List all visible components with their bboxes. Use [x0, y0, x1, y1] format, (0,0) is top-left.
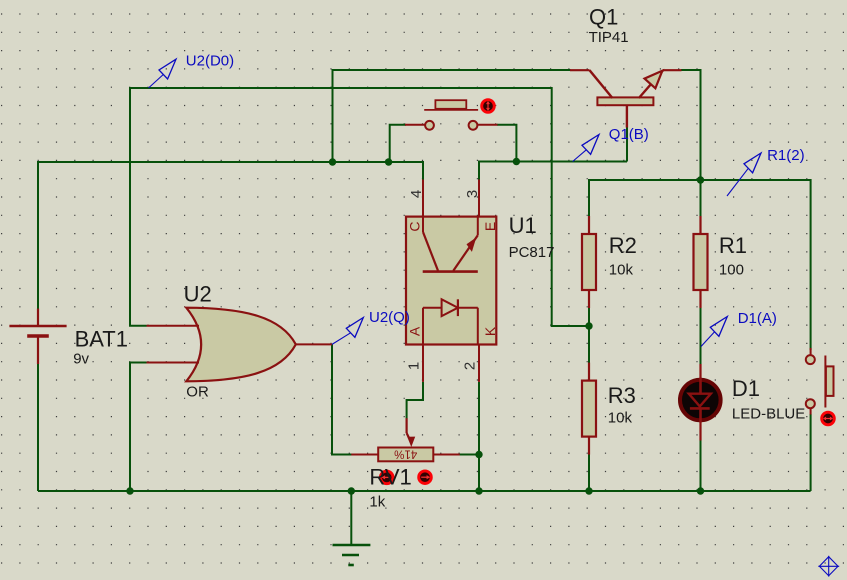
- svg-text:R2: R2: [609, 233, 637, 258]
- label R3: [608, 383, 636, 408]
- svg-text:D1: D1: [732, 376, 760, 401]
- wire button left contact drop: [390, 125, 406, 162]
- svg-text:1k: 1k: [369, 494, 385, 511]
- wire U1 pin1 to RV1 wiper: [407, 382, 423, 419]
- svg-text:Q1(B): Q1(B): [609, 126, 649, 143]
- pin name A: [407, 326, 423, 336]
- svg-text:U2(Q): U2(Q): [369, 309, 410, 326]
- wire BAT1- to ground rail: [37, 364, 39, 491]
- wire U1 pin3 to Q1 base y=161.5: [479, 162, 627, 180]
- value 9v: [73, 351, 89, 368]
- svg-text:4: 4: [408, 190, 425, 198]
- pin number 1: [406, 362, 423, 370]
- potentiometer RV1: [351, 418, 459, 461]
- svg-text:C: C: [407, 221, 423, 231]
- svg-text:3: 3: [464, 190, 481, 198]
- pin name K: [482, 326, 498, 336]
- svg-text:U2(D0): U2(D0): [186, 53, 234, 70]
- LED D1: [680, 364, 721, 441]
- label R1: [719, 233, 747, 258]
- junction node 1: [329, 158, 336, 165]
- svg-text:U1: U1: [509, 213, 537, 238]
- wire net R1(2) y=180 to switch: [589, 180, 811, 350]
- ground: [333, 491, 371, 565]
- svg-text:10k: 10k: [609, 261, 634, 278]
- net label U2(Q): [332, 309, 410, 344]
- value LED-BLUE: [732, 405, 805, 422]
- junction node 4: [697, 176, 704, 183]
- wire net U2(D0) OR-input / y=88 / down to R2-R3 node: [130, 88, 589, 326]
- wire ground rail y=491: [38, 490, 811, 492]
- svg-text:RV1: RV1: [369, 464, 411, 489]
- resistor R1: [694, 216, 708, 308]
- RV1 toggle up: [419, 471, 432, 484]
- junction node 11: [697, 487, 704, 494]
- wire Q1 emitter to node R1(2): [681, 70, 701, 180]
- switch: [806, 348, 834, 415]
- svg-text:K: K: [482, 326, 498, 336]
- value TIP41: [589, 29, 629, 46]
- junction node 3: [513, 158, 520, 165]
- value 10k (R2): [609, 261, 634, 278]
- wire RV1 right to U1 pin2 net: [460, 454, 480, 456]
- svg-text:41%: 41%: [394, 447, 417, 459]
- svg-text:2: 2: [462, 362, 479, 370]
- svg-text:R3: R3: [608, 383, 636, 408]
- wire switch bottom to ground rail: [810, 414, 812, 491]
- svg-text:A: A: [407, 326, 423, 336]
- transistor Q1: [570, 70, 682, 127]
- svg-text:E: E: [482, 222, 498, 231]
- wire U1 pin2 down to ground rail: [478, 382, 480, 491]
- svg-text:R1: R1: [719, 233, 747, 258]
- wire R2 bottom to node: [588, 303, 590, 326]
- pin name C: [407, 221, 423, 231]
- junction node 6: [475, 451, 482, 458]
- label R2: [609, 233, 637, 258]
- svg-text:PC817: PC817: [509, 244, 555, 261]
- wire OR output to RV1 left: [332, 344, 352, 454]
- label Q1: [589, 5, 618, 30]
- wire OR lower input to ground rail: [130, 363, 147, 492]
- junction node 5: [585, 322, 592, 329]
- resistor R3: [582, 363, 596, 455]
- wire Q1 base vertical: [626, 127, 628, 162]
- net label Q1(B): [573, 126, 649, 162]
- svg-text:U2: U2: [184, 282, 212, 307]
- battery BAT1: [9, 309, 66, 364]
- optocoupler U1: [406, 180, 496, 382]
- net label D1(A): [701, 310, 777, 347]
- push button: [405, 100, 498, 130]
- junction node 7: [126, 487, 133, 494]
- wire LED cathode to ground rail: [700, 441, 702, 492]
- svg-text:OR: OR: [186, 383, 209, 400]
- wire button right contact drop: [497, 125, 516, 162]
- svg-text:10k: 10k: [608, 409, 633, 426]
- wire y=70 to Q1 collector: [332, 69, 571, 71]
- svg-text:9v: 9v: [73, 351, 89, 368]
- svg-text:LED-BLUE: LED-BLUE: [732, 405, 805, 422]
- value OR: [186, 383, 209, 400]
- wire vertical x=332.5: [332, 70, 334, 162]
- wire net y=162 horizontal to U1 pin4: [38, 162, 423, 180]
- label BAT1: [75, 326, 128, 351]
- label D1: [732, 376, 760, 401]
- junction node 9: [475, 487, 482, 494]
- wire R3 top stub: [588, 326, 590, 363]
- pin name E: [482, 222, 498, 231]
- junction node 10: [585, 487, 592, 494]
- label RV1: [369, 464, 411, 489]
- net label R1(2): [727, 147, 805, 196]
- pin number 4: [408, 190, 425, 198]
- pin number 2: [462, 362, 479, 370]
- svg-text:R1(2): R1(2): [767, 147, 805, 164]
- OR gate U2: [147, 308, 333, 382]
- label U2: [184, 282, 212, 307]
- value PC817: [509, 244, 555, 261]
- pin number 3: [464, 190, 481, 198]
- junction node 8: [348, 487, 355, 494]
- wire R3 bottom stub: [588, 454, 590, 491]
- RV1 toggle down: [380, 471, 393, 484]
- svg-text:BAT1: BAT1: [75, 326, 128, 351]
- svg-text:100: 100: [719, 261, 744, 278]
- button toggle: [482, 100, 495, 113]
- svg-text:D1(A): D1(A): [738, 310, 777, 327]
- resistor R2: [582, 216, 596, 308]
- value 1k: [369, 494, 385, 511]
- wire R1 top stub: [700, 180, 702, 216]
- origin marker: [818, 556, 839, 577]
- value 41%: [394, 447, 417, 459]
- junction node 2: [385, 158, 392, 165]
- wire BAT1+ to net y162: [37, 162, 39, 309]
- switch toggle: [822, 412, 835, 425]
- svg-text:Q1: Q1: [589, 5, 618, 30]
- value 100: [719, 261, 744, 278]
- svg-text:1: 1: [406, 362, 423, 370]
- value 10k (R3): [608, 409, 633, 426]
- wire R1 bottom to LED: [700, 308, 702, 364]
- svg-text:TIP41: TIP41: [589, 29, 629, 46]
- net label U2(D0): [149, 53, 235, 88]
- label U1: [509, 213, 537, 238]
